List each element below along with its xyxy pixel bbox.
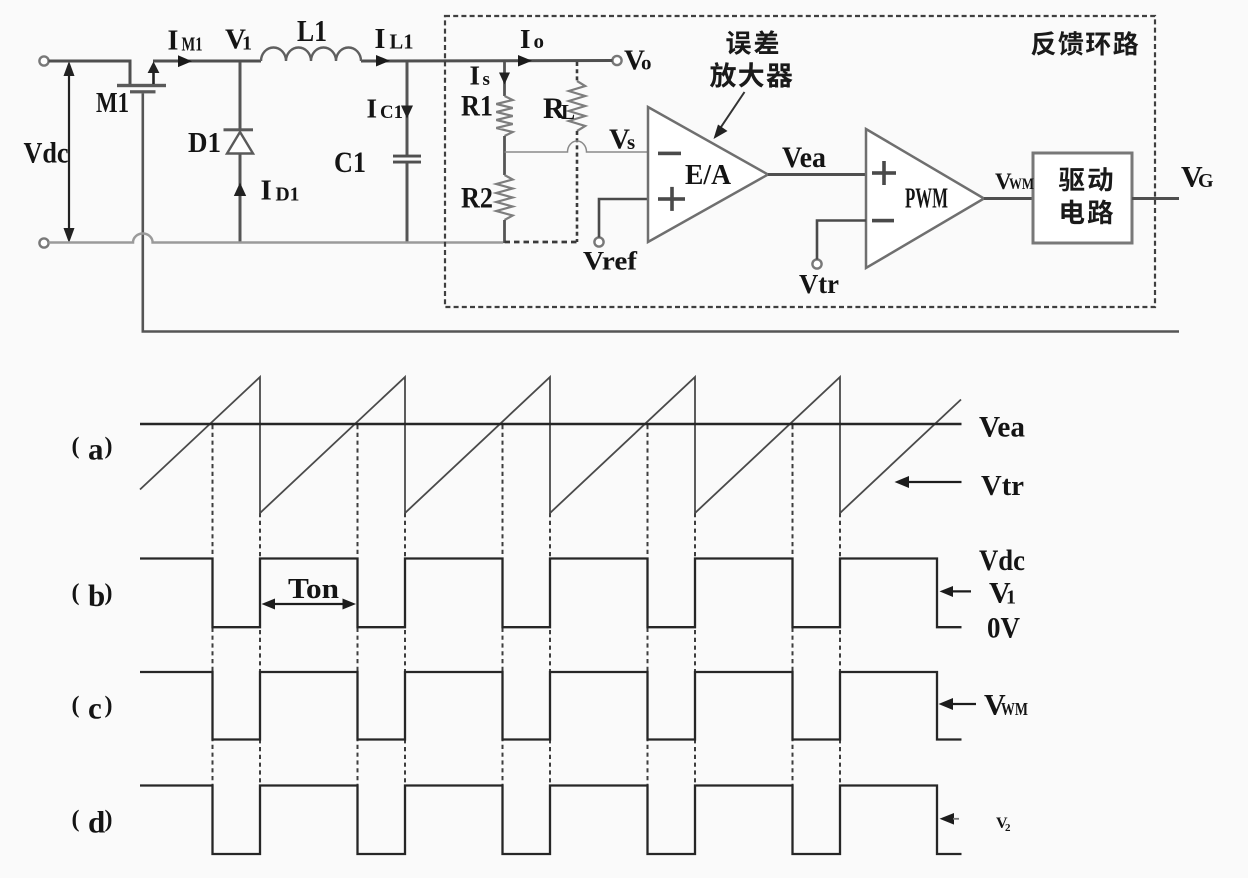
svg-text:): )	[105, 434, 113, 460]
svg-text:PWM: PWM	[905, 184, 948, 215]
svg-text:o: o	[534, 29, 545, 53]
svg-text:C1: C1	[380, 102, 403, 123]
svg-text:Vtr: Vtr	[799, 269, 839, 299]
svg-text:): )	[105, 580, 113, 606]
svg-text:(: (	[72, 693, 80, 719]
svg-text:): )	[105, 807, 113, 833]
svg-text:WM: WM	[1001, 699, 1028, 719]
svg-text:Vdc: Vdc	[979, 544, 1025, 577]
svg-text:I: I	[520, 24, 531, 54]
svg-text:E/A: E/A	[685, 159, 731, 191]
svg-text:I: I	[168, 26, 179, 57]
svg-text:D1: D1	[188, 127, 221, 159]
svg-text:b: b	[88, 578, 105, 613]
svg-text:0V: 0V	[987, 612, 1020, 645]
svg-text:Vdc: Vdc	[24, 136, 69, 169]
svg-text:2: 2	[1005, 822, 1011, 834]
svg-text:s: s	[627, 130, 635, 154]
svg-text:a: a	[88, 432, 104, 467]
svg-text:D1: D1	[276, 184, 300, 206]
svg-text:WM: WM	[1009, 176, 1034, 193]
svg-text:Vea: Vea	[979, 411, 1025, 444]
svg-text:): )	[105, 693, 113, 719]
svg-text:I: I	[261, 175, 272, 207]
svg-text:Vref: Vref	[583, 247, 637, 276]
svg-text:(: (	[72, 807, 80, 833]
svg-text:R1: R1	[461, 90, 493, 123]
svg-text:M1: M1	[96, 87, 129, 119]
svg-text:c: c	[88, 691, 102, 726]
svg-text:s: s	[483, 69, 490, 90]
svg-text:I: I	[470, 61, 481, 91]
svg-text:(: (	[72, 434, 80, 460]
svg-text:L1: L1	[390, 30, 414, 54]
svg-text:Vtr: Vtr	[981, 470, 1024, 502]
svg-text:Ton: Ton	[288, 573, 339, 605]
svg-text:1: 1	[1006, 587, 1016, 609]
svg-text:(: (	[72, 580, 80, 606]
svg-text:L1: L1	[297, 13, 327, 48]
svg-text:M1: M1	[182, 34, 203, 56]
svg-text:L: L	[561, 100, 575, 124]
svg-text:G: G	[1198, 170, 1214, 192]
svg-text:Vea: Vea	[782, 141, 826, 174]
svg-text:d: d	[88, 805, 105, 840]
svg-text:R2: R2	[461, 182, 493, 215]
svg-text:o: o	[641, 51, 652, 75]
svg-text:C1: C1	[334, 146, 366, 179]
svg-text:I: I	[367, 94, 378, 124]
svg-text:I: I	[375, 24, 386, 55]
svg-text:1: 1	[242, 33, 252, 55]
